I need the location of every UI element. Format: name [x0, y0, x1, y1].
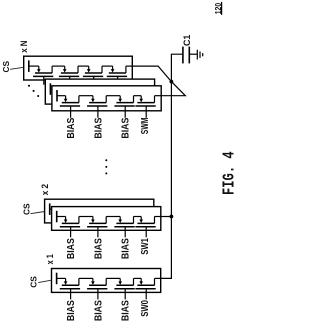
svg-text:BIAS: BIAS — [93, 300, 104, 321]
svg-text:120: 120 — [213, 3, 223, 15]
svg-text:SWM: SWM — [140, 118, 151, 135]
svg-text:C1: C1 — [182, 34, 192, 46]
svg-text:BIAS: BIAS — [66, 238, 77, 259]
svg-text:CS: CS — [21, 203, 31, 215]
svg-text:BIAS: BIAS — [93, 117, 104, 138]
svg-text:BIAS: BIAS — [121, 117, 132, 138]
svg-text:BIAS: BIAS — [121, 300, 132, 321]
svg-text:x N: x N — [19, 41, 29, 53]
svg-text:SW1: SW1 — [140, 238, 151, 255]
svg-text:x 2: x 2 — [40, 184, 50, 195]
svg-text:FIG. 4: FIG. 4 — [221, 151, 240, 195]
svg-text:SW0: SW0 — [140, 300, 151, 317]
svg-text:BIAS: BIAS — [121, 238, 132, 259]
svg-text:BIAS: BIAS — [66, 117, 77, 138]
svg-text:BIAS: BIAS — [66, 300, 77, 321]
svg-text:CS: CS — [1, 60, 11, 72]
svg-text:x 1: x 1 — [45, 254, 55, 264]
svg-text:BIAS: BIAS — [93, 238, 104, 259]
svg-text:CS: CS — [28, 276, 38, 288]
